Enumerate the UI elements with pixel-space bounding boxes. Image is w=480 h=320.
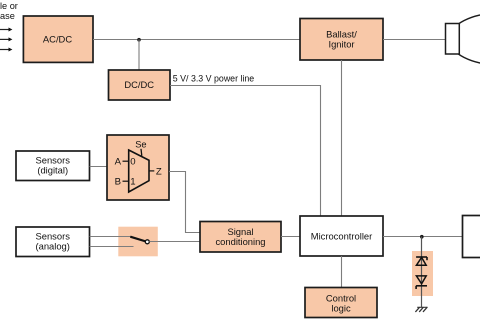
ground (signal ground hatches) <box>415 307 427 312</box>
svg-text:1: 1 <box>130 177 135 188</box>
block: DC/DC converter <box>109 70 171 100</box>
block: AC/DC converter <box>23 16 93 62</box>
wire: switch to Signal conditioning <box>149 241 200 243</box>
svg-text:Z: Z <box>156 166 162 177</box>
junction: protection node <box>420 235 424 239</box>
block: Ballast/Ignitor <box>300 19 383 61</box>
wire: mains input arrow 2 <box>0 37 12 41</box>
wire: Sensors (analog) to switch, bottom <box>90 246 134 248</box>
svg-text:conditioning: conditioning <box>215 236 265 247</box>
junction: AC/DC output node <box>137 38 141 42</box>
wire: Microcontroller to interface block <box>383 236 463 238</box>
svg-text:logic: logic <box>331 302 351 313</box>
wire: mux Z output to Signal conditioning <box>169 172 200 233</box>
svg-text:(analog): (analog) <box>35 241 69 252</box>
svg-text:Ignitor: Ignitor <box>328 39 354 50</box>
svg-text:Microcontroller: Microcontroller <box>311 230 372 241</box>
svg-text:AC/DC: AC/DC <box>43 34 72 45</box>
svg-text:5 V/ 3.3 V power line: 5 V/ 3.3 V power line <box>173 73 254 83</box>
svg-text:Se: Se <box>135 140 146 150</box>
wire: Ballast/Ignitor to lamp <box>383 39 446 41</box>
wire: Sensors (digital) to mux <box>90 166 108 168</box>
svg-text:B: B <box>115 177 121 188</box>
label: mains "Single or 3-phase" (clipped at left edge) <box>0 1 18 21</box>
switch highlight box <box>118 227 158 257</box>
TVS highlight box <box>412 251 433 296</box>
wire: mains input arrow 3 <box>0 48 12 52</box>
wire: Signal conditioning to Microcontroller <box>281 236 300 238</box>
block: Signal conditioning <box>200 222 281 253</box>
wire: Microcontroller to Control logic <box>341 256 343 288</box>
block: interface (right edge, clipped) <box>463 216 480 258</box>
block: Sensors (analog) <box>16 227 90 257</box>
svg-text:A: A <box>115 157 122 168</box>
wire: power line DC/DC to Microcontroller <box>170 86 321 217</box>
zener diode D1 (cathode up) <box>416 257 427 265</box>
svg-text:3-phase: 3-phase <box>0 11 15 21</box>
svg-text:0: 0 <box>130 157 135 168</box>
block: Microcontroller <box>300 216 383 256</box>
mux symbol (2:1 multiplexer) <box>115 140 162 193</box>
wire: node down to ground <box>421 237 423 308</box>
mux highlight box <box>107 135 169 200</box>
wire: AC/DC to Ballast/Ignitor <box>93 39 300 41</box>
wire: junction down to DC/DC <box>138 40 140 71</box>
block: Sensors (digital) <box>16 151 90 181</box>
svg-text:DC/DC: DC/DC <box>124 79 154 90</box>
lamp (bulb at right edge) <box>446 13 480 65</box>
wire: Sensors (analog) to switch, top <box>90 236 132 238</box>
block: Control logic <box>305 288 377 318</box>
wire: mains input arrow 1 <box>0 28 12 32</box>
svg-text:Single or: Single or <box>0 1 18 11</box>
switch SW1 (analog selector) <box>130 237 149 244</box>
wire: Ballast/Ignitor down to Microcontroller <box>341 60 343 216</box>
zener diode D2 (cathode down) <box>416 276 427 289</box>
svg-text:(digital): (digital) <box>37 165 68 176</box>
